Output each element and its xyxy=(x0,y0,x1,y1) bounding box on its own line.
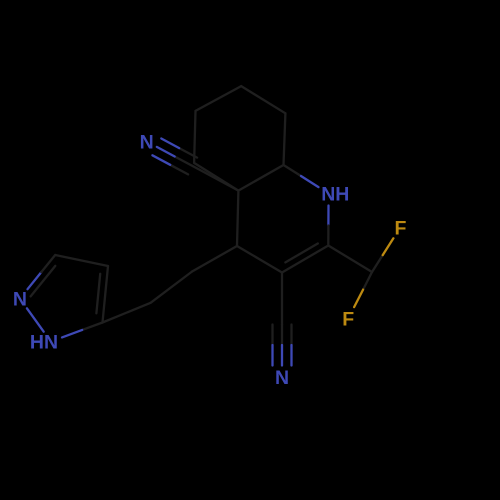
svg-text:N: N xyxy=(13,289,27,311)
triple bond CN1C#N (upper nitrile) xyxy=(152,139,197,175)
bond B3-B4 (upper ring) xyxy=(241,86,285,113)
bond C2-C3 (ring double bond main line) xyxy=(282,246,328,273)
bond C2-CF (to CHF2 carbon) xyxy=(328,246,372,273)
bond N1p-N2p (N-N) xyxy=(27,308,44,331)
bond C3-C4 (ring) xyxy=(237,246,282,273)
bond N1-C2 (ring N-H nitrogen to C2) xyxy=(327,206,330,246)
svg-text:NH: NH xyxy=(321,184,349,206)
svg-text:F: F xyxy=(394,217,406,239)
svg-text:HN: HN xyxy=(30,332,58,354)
bond C6-N1 (to ring NH) xyxy=(284,165,319,187)
svg-text:F: F xyxy=(342,309,354,331)
bond C4a-B1 (upper ring) xyxy=(194,163,238,191)
bond B4-C8a (upper ring) xyxy=(284,113,286,165)
bond B2-B3 (upper ring) xyxy=(196,86,242,111)
bond K1-C5p (chain to pyrazole C5) xyxy=(103,303,151,323)
bond C4p-C5p inner double line xyxy=(96,274,100,314)
triple bond CN2C#N (lower nitrile) xyxy=(273,325,292,366)
bond C5-CN1C (to nitrile carbon) xyxy=(193,166,239,191)
svg-text:N: N xyxy=(275,367,289,389)
bond CF-F1 (C-F) xyxy=(372,238,393,272)
bond C3-CN2C (to nitrile carbon) xyxy=(281,273,283,325)
bond C4a-C8a (ring fusion bond) xyxy=(238,165,283,191)
bond C5p-N1p (to pyrazole NH) xyxy=(62,323,103,338)
bond C4-K2 (chain CH2) xyxy=(192,246,237,272)
bond C4p-C5p (double bond main line) xyxy=(103,266,109,323)
svg-text:N: N xyxy=(140,132,154,154)
bond CF-F2 (C-F) xyxy=(354,272,372,307)
bond N2p-C3p inner double line xyxy=(31,266,56,297)
bond C4-C5 (ring) xyxy=(237,191,238,246)
bond B1-B2 (upper ring) xyxy=(194,111,195,163)
bond C3p-C4p (ring) xyxy=(55,255,108,266)
bond N2p-C3p (double bond main line) xyxy=(28,255,56,289)
bond K2-K1 (chain CH2) xyxy=(151,272,193,303)
bond C2-C3 inner double line xyxy=(285,244,317,263)
